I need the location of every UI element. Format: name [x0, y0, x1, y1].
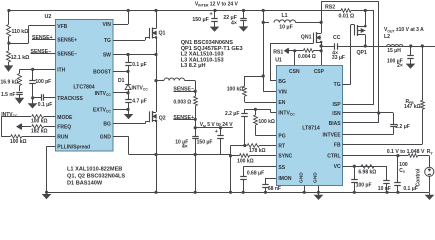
svg-text:4×: 4× [182, 144, 188, 150]
svg-text:LT8714: LT8714 [302, 125, 320, 131]
svg-text:FREQ: FREQ [57, 125, 71, 131]
svg-text:100 kΩ: 100 kΩ [10, 139, 27, 145]
svg-text:CSP: CSP [314, 69, 325, 75]
svg-text:Q1: Q1 [159, 30, 166, 36]
svg-text:QN1: QN1 [301, 35, 312, 41]
svg-text:Q2: Q2 [159, 116, 166, 122]
svg-text:Control: Control [416, 168, 422, 186]
svg-text:Q1, Q2 BSC032N04LS: Q1, Q2 BSC032N04LS [67, 173, 125, 179]
svg-text:150 μF: 150 μF [197, 139, 213, 145]
svg-text:SYNC: SYNC [278, 154, 292, 160]
svg-text:BG: BG [278, 79, 286, 85]
svg-text:EN: EN [278, 100, 285, 106]
svg-text:D1: D1 [118, 78, 125, 84]
svg-text:BG: BG [103, 122, 111, 128]
svg-text:BOOST: BOOST [93, 69, 111, 75]
svg-text:10 μF: 10 μF [279, 25, 293, 31]
svg-text:CTRL: CTRL [327, 154, 340, 160]
svg-text:100 pF: 100 pF [35, 79, 51, 85]
svg-text:L3 8.2 μH: L3 8.2 μH [181, 63, 206, 69]
svg-text:PG: PG [278, 133, 285, 139]
svg-text:100 kΩ: 100 kΩ [237, 159, 254, 165]
svg-text:GND: GND [313, 172, 319, 183]
svg-text:2×: 2× [397, 63, 403, 69]
svg-text:0.1 μF: 0.1 μF [132, 62, 146, 68]
svg-text:MODE: MODE [57, 115, 73, 121]
svg-text:SENSE−: SENSE− [57, 51, 77, 57]
svg-text:U2: U2 [45, 14, 52, 20]
svg-text:VIN: VIN [103, 22, 112, 28]
svg-text:ISP: ISP [333, 102, 342, 108]
svg-text:RS2: RS2 [325, 5, 335, 11]
svg-text:QP1: QP1 [357, 50, 367, 56]
svg-text:L1: L1 [281, 13, 287, 19]
svg-text:33 μF: 33 μF [332, 55, 345, 61]
svg-text:SS: SS [278, 165, 285, 171]
svg-text:4.7 μF: 4.7 μF [132, 99, 146, 105]
svg-text:L2: L2 [384, 34, 390, 40]
svg-text:68 nF: 68 nF [268, 186, 281, 192]
svg-text:LTC7804: LTC7804 [73, 85, 94, 91]
svg-text:182 kΩ: 182 kΩ [31, 129, 48, 135]
svg-text:12.1 kΩ: 12.1 kΩ [11, 55, 30, 61]
svg-text:GND: GND [100, 135, 112, 141]
svg-text:SENSE+: SENSE+ [57, 37, 77, 43]
svg-text:0.1 μF: 0.1 μF [38, 102, 52, 108]
svg-text:IMON: IMON [278, 176, 291, 182]
svg-text:0.01 Ω: 0.01 Ω [339, 14, 355, 20]
svg-text:INTVEE: INTVEE [323, 133, 342, 139]
svg-text:VFB: VFB [57, 24, 67, 30]
svg-text:0.004 Ω: 0.004 Ω [298, 54, 316, 60]
svg-text:4×: 4× [231, 21, 237, 27]
svg-text:CC: CC [333, 35, 341, 41]
svg-text:110 kΩ: 110 kΩ [12, 29, 29, 35]
svg-text:TRACK/SS: TRACK/SS [57, 96, 83, 102]
svg-text:VC: VC [334, 164, 341, 170]
svg-text:2.2 μF: 2.2 μF [225, 111, 239, 117]
svg-text:100 kΩ: 100 kΩ [227, 86, 244, 92]
svg-text:PLLIN/Spread: PLLIN/Spread [57, 144, 90, 150]
svg-text:0.003 Ω: 0.003 Ω [173, 100, 191, 106]
svg-text:BIAS: BIAS [329, 121, 342, 127]
svg-text:100 pF: 100 pF [356, 183, 372, 189]
svg-text:100 kΩ: 100 kΩ [258, 119, 275, 125]
svg-text:RT: RT [278, 144, 285, 150]
svg-text:0.1 V to 1.048 V: 0.1 V to 1.048 V [387, 149, 425, 155]
svg-text:178 kΩ: 178 kΩ [249, 148, 266, 154]
svg-text:TG: TG [334, 82, 341, 88]
svg-text:147 kΩ: 147 kΩ [404, 104, 421, 110]
svg-text:L1 XAL1010-822MEB: L1 XAL1010-822MEB [67, 167, 122, 173]
svg-text:VIN: VIN [278, 89, 287, 95]
svg-text:RUN: RUN [57, 135, 68, 141]
svg-text:0.68 μF: 0.68 μF [247, 171, 264, 177]
svg-text:15 μH: 15 μH [387, 48, 401, 54]
svg-text:16.9 kΩ: 16.9 kΩ [1, 79, 19, 85]
svg-text:10 nF: 10 nF [378, 186, 391, 192]
svg-text:U1: U1 [275, 58, 282, 64]
svg-text:TG: TG [104, 38, 111, 44]
svg-text:1.5 nF: 1.5 nF [1, 92, 15, 98]
svg-text:150 μF: 150 μF [192, 17, 208, 23]
svg-text:2.2 μF: 2.2 μF [395, 124, 409, 130]
svg-text:ISN: ISN [332, 111, 341, 117]
svg-text:SW: SW [103, 53, 111, 59]
svg-text:RS1: RS1 [273, 49, 283, 55]
svg-text:D1 BAS140W: D1 BAS140W [67, 180, 103, 186]
svg-text:FB: FB [334, 142, 341, 148]
svg-text:CSN: CSN [289, 69, 300, 75]
svg-text:GND: GND [298, 172, 304, 183]
svg-text:100 kΩ: 100 kΩ [31, 119, 48, 125]
svg-text:+: + [210, 11, 213, 17]
svg-text:+: + [215, 129, 218, 135]
svg-text:6.98 kΩ: 6.98 kΩ [358, 169, 376, 175]
svg-text:ITH: ITH [57, 67, 65, 73]
